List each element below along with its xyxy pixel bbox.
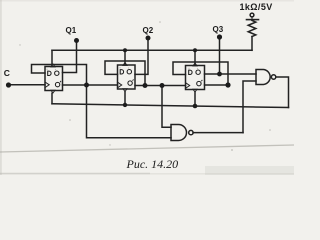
wire: FF2 Q' to FF3 clock <box>135 85 186 87</box>
flip-flop U3 (D trigger) <box>186 66 205 90</box>
U1 pin letter Q <box>55 71 59 75</box>
wire: clear rail along bottom of flip-flops <box>52 104 289 108</box>
U2 pin letter Q-bar <box>128 81 132 85</box>
wire: FF3 clear drop <box>194 92 196 106</box>
wire: V1 riser from bottom NAND output to right NAND input B <box>243 81 256 133</box>
U3 clear pin triangle <box>193 89 197 92</box>
U1 clear pin triangle <box>51 90 55 93</box>
+5V supply terminal circle <box>250 13 254 17</box>
U2 clear pin triangle <box>123 89 127 92</box>
U1 Q-bar prime tick <box>59 81 62 82</box>
U2 pin letter Q <box>127 70 131 74</box>
wire: resistor lead down to preset rail <box>251 37 253 51</box>
junction: Q3 line <box>217 72 222 77</box>
junction: clear rail / FF3 clear <box>193 104 198 109</box>
wire: FF3 Q output to right NAND input A <box>205 73 257 75</box>
U1 pin letter D <box>48 71 51 75</box>
node: C input terminal dot <box>6 82 11 87</box>
node: Q3 output terminal dot <box>217 34 222 39</box>
svg-text:1kΩ/5V: 1kΩ/5V <box>240 2 273 12</box>
U2 pin letter D <box>120 70 123 74</box>
scan crease line <box>0 145 294 152</box>
NAND gate G1 output bubble <box>271 75 275 79</box>
junction: Q'2 tap <box>160 83 165 88</box>
svg-text:Q2: Q2 <box>143 26 154 35</box>
wire: FF1 Q' to FF2 clock <box>63 84 118 86</box>
junction: preset rail / FF2 preset <box>123 48 127 52</box>
+5V supply terminal bar <box>247 19 259 21</box>
wire: FF1 Q output up to Q1 terminal <box>63 43 77 73</box>
junction: Q'2 loop corner <box>143 83 148 88</box>
U1 preset pin triangle <box>51 64 55 67</box>
wire: FF1 clear drop <box>51 93 53 104</box>
svg-text:Q1: Q1 <box>66 26 77 35</box>
U3 pin letter D <box>189 70 192 74</box>
wire: FF2 Q output up to Q2 terminal <box>135 41 148 75</box>
wire: FF1 toggle feedback loop Q'->D <box>32 65 87 86</box>
NAND gate G2 (bottom) <box>171 125 187 141</box>
U3 Q-bar prime tick <box>200 80 203 81</box>
supply stub <box>251 17 253 21</box>
wire: Q'1 tap down to bottom NAND input B <box>87 85 172 138</box>
U2 clock wedge <box>118 82 122 88</box>
junction: Q'3 loop <box>225 82 230 87</box>
U2 Q-bar prime tick <box>132 79 135 80</box>
U3 pin letter Q <box>196 70 200 74</box>
wire: Q'2 tap down to bottom NAND input A <box>162 86 171 128</box>
wire: preset pull-up rail (net PR) <box>52 49 252 51</box>
wire: FF3 toggle feedback loop Q'->D <box>173 62 228 85</box>
svg-text:C: C <box>4 68 10 78</box>
scan speckles <box>19 21 271 151</box>
wire: right NAND output down to clear rail <box>276 77 289 108</box>
svg-text:Рис. 14.20: Рис. 14.20 <box>126 157 179 171</box>
wire: FF3 preset drop <box>194 50 196 64</box>
U1 pin letter Q-bar <box>55 82 59 86</box>
node: Q2 output terminal dot <box>146 36 151 41</box>
junction: preset rail / FF3 preset <box>193 48 197 52</box>
NAND gate G1 (right, reset driver) <box>256 70 270 85</box>
U1 clock wedge <box>45 82 49 88</box>
svg-text:Q3: Q3 <box>213 25 224 34</box>
wire: C input to FF1 clock <box>11 84 45 86</box>
resistor R1 1kOhm zigzag <box>248 21 256 37</box>
wire: FF1 preset drop <box>51 50 53 65</box>
wire: FF2 clear drop <box>124 92 126 105</box>
wire: FF2 preset drop <box>124 50 126 64</box>
NAND gate G2 output bubble <box>189 130 193 134</box>
wire: bottom NAND output to V1 riser <box>193 132 243 134</box>
junction: clear rail / FF2 clear <box>123 103 127 107</box>
junction: Q'1 node <box>84 83 89 88</box>
wire: FF2 toggle feedback loop Q'->D <box>105 61 145 86</box>
U3 clock wedge <box>186 83 190 89</box>
U3 preset pin triangle <box>193 63 197 66</box>
U3 pin letter Q-bar <box>197 81 201 85</box>
wire: Q3 vertical up to terminal <box>219 40 221 75</box>
flip-flop U2 (D trigger) <box>118 65 136 89</box>
flip-flop U1 (D trigger) <box>45 67 63 91</box>
U2 preset pin triangle <box>123 63 127 66</box>
node: Q1 output terminal dot <box>74 38 79 43</box>
